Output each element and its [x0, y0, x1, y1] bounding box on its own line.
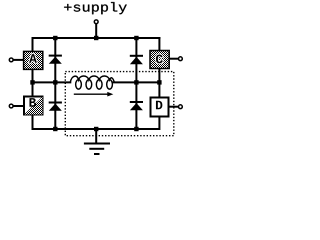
junction top rail / supply — [94, 36, 98, 40]
wire supply stem — [95, 24, 97, 38]
wire left branch middle — [32, 69, 34, 97]
wire bottom rail — [32, 128, 160, 130]
wire left branch lower — [32, 114, 34, 130]
switch A (closed) — [24, 51, 43, 69]
terminal A — [9, 58, 13, 62]
wire right diode branch — [135, 37, 137, 129]
junction bottom rail / left diode — [53, 127, 57, 131]
ground — [84, 129, 110, 154]
wire right branch lower — [158, 116, 160, 130]
wire terminal D — [169, 106, 179, 108]
terminal D — [179, 105, 183, 109]
wire terminal C — [169, 58, 178, 60]
junction top rail / right diode — [134, 36, 138, 40]
switch D (open) — [151, 98, 169, 117]
diode D1 top-left — [49, 55, 62, 64]
terminal B — [9, 104, 13, 108]
junction top rail / left diode — [53, 36, 57, 40]
diode D3 bottom-left — [49, 102, 62, 111]
wire right branch upper — [158, 37, 160, 51]
diode D4 bottom-right — [130, 101, 143, 110]
wire top rail — [32, 37, 161, 39]
wire terminal A — [14, 59, 25, 61]
wire load right — [113, 81, 160, 83]
terminal supply — [94, 20, 98, 24]
junction load / right branch — [157, 80, 161, 84]
wire terminal B — [14, 105, 25, 107]
selection marquee (dotted) — [65, 72, 174, 136]
junction bottom rail / ground — [94, 127, 98, 131]
terminal C — [179, 57, 183, 61]
inductor L1 coil — [70, 76, 114, 82]
net label +supply — [64, 2, 127, 14]
junction load / right diode — [134, 80, 138, 84]
junction load / left diode — [53, 80, 57, 84]
current arrow — [74, 92, 114, 97]
junction bottom rail / right diode — [134, 127, 138, 131]
switch C (closed) — [150, 51, 169, 69]
wire load left — [33, 81, 72, 83]
diode D2 top-right — [130, 55, 143, 64]
wire left branch upper — [32, 37, 34, 52]
junction load / left branch — [30, 80, 34, 84]
switch B (switching) — [24, 97, 43, 115]
wire left diode branch — [54, 37, 56, 129]
wire right branch middle — [158, 68, 160, 98]
